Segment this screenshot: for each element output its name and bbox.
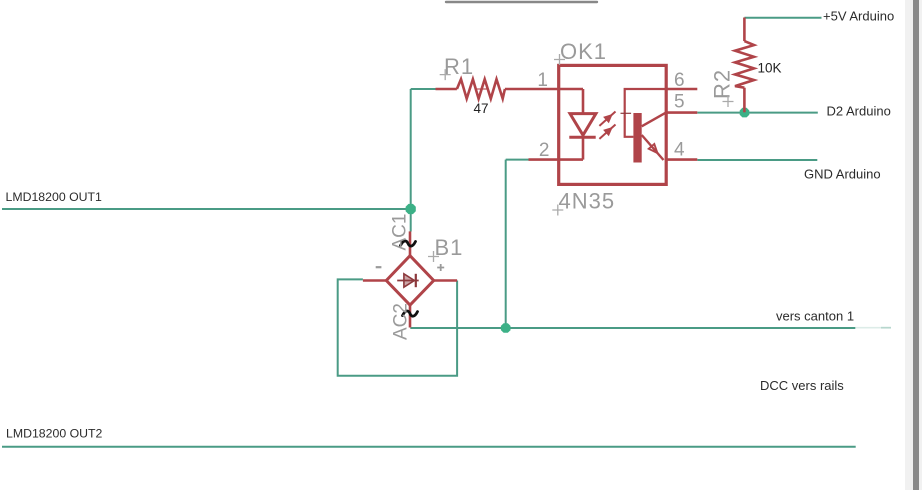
pin 5 stub bbox=[666, 111, 697, 114]
emitter arrowhead bbox=[649, 144, 658, 153]
wire pin2 vertical bbox=[505, 160, 507, 328]
wire LMD18200 OUT1 bbox=[2, 208, 411, 210]
wire loop rectangle bbox=[338, 279, 457, 375]
resistor R1 bbox=[436, 79, 559, 99]
light arrow 1 bbox=[597, 108, 619, 129]
svg-text:AC2: AC2 bbox=[391, 303, 412, 340]
bridge B1 diamond bbox=[386, 256, 433, 305]
junction canton/pin2 bbox=[501, 323, 511, 333]
scrollbar track bbox=[905, 0, 922, 490]
origin cross B1 bbox=[428, 251, 439, 262]
svg-text:6: 6 bbox=[674, 70, 685, 91]
svg-text:DCC vers rails: DCC vers rails bbox=[760, 378, 844, 393]
bridge plus sign bbox=[437, 264, 444, 271]
wire +5V bbox=[744, 17, 821, 19]
AC1 tilde bbox=[401, 241, 416, 246]
bridge inner diode bbox=[397, 274, 419, 287]
bridge top lead AC1 bbox=[409, 231, 412, 256]
svg-text:OK1: OK1 bbox=[560, 39, 607, 64]
svg-text:AC1: AC1 bbox=[390, 214, 411, 251]
junction D2/R2 bbox=[740, 108, 750, 118]
svg-text:vers canton 1: vers canton 1 bbox=[776, 308, 854, 323]
wire pin2 horizontal bbox=[506, 159, 529, 161]
svg-text:1: 1 bbox=[537, 70, 548, 91]
pin 6 stub bbox=[666, 88, 697, 91]
svg-text:4N35: 4N35 bbox=[559, 189, 616, 214]
light arrow 2 bbox=[597, 121, 619, 142]
origin cross R2 bbox=[723, 96, 734, 107]
wire erased remnant bbox=[855, 327, 891, 329]
svg-text:2: 2 bbox=[539, 140, 550, 161]
resistor R2 bbox=[735, 18, 754, 113]
pin 4 stub bbox=[666, 158, 697, 161]
svg-text:47: 47 bbox=[474, 101, 489, 116]
pin 2 stub bbox=[529, 158, 559, 161]
svg-text:4: 4 bbox=[674, 139, 685, 160]
toolbar fragment top bbox=[446, 1, 597, 3]
AC2 tilde bbox=[403, 311, 418, 316]
junction OUT1/vertical bbox=[406, 204, 416, 214]
svg-text:10K: 10K bbox=[758, 61, 782, 76]
LED inside OK1 bbox=[559, 89, 596, 160]
origin cross OK1 bbox=[554, 54, 565, 65]
svg-text:+5V Arduino: +5V Arduino bbox=[823, 9, 894, 24]
scrollbar thumb bbox=[913, 0, 919, 490]
wire GND bbox=[697, 159, 817, 161]
collector bbox=[642, 112, 667, 126]
wire R1 feed bbox=[411, 88, 437, 90]
emitter bbox=[642, 135, 664, 160]
svg-text:LMD18200 OUT2: LMD18200 OUT2 bbox=[6, 427, 103, 441]
svg-text:D2 Arduino: D2 Arduino bbox=[827, 104, 891, 119]
svg-text:5: 5 bbox=[674, 92, 685, 113]
transistor base bar bbox=[633, 113, 641, 163]
bridge right lead plus bbox=[434, 279, 457, 282]
svg-text:LMD18200 OUT1: LMD18200 OUT1 bbox=[6, 190, 103, 204]
origin cross 4N35 bbox=[552, 205, 563, 216]
svg-text:R2: R2 bbox=[710, 69, 735, 99]
wire vers canton 1 bbox=[410, 327, 855, 329]
transistor origin tick bbox=[621, 112, 632, 114]
bridge bottom lead AC2 bbox=[409, 305, 412, 327]
wire vertical OUT1 to R1/bridge bbox=[410, 89, 412, 232]
wire D2 bbox=[697, 112, 818, 114]
origin cross R1 bbox=[440, 69, 451, 80]
wire LMD18200 OUT2 bbox=[2, 446, 856, 448]
op-to OK1 box bbox=[559, 65, 667, 184]
bridge minus sign bbox=[376, 266, 382, 268]
svg-text:GND Arduino: GND Arduino bbox=[804, 166, 881, 181]
phototransistor base path bbox=[625, 89, 667, 137]
bridge left lead minus bbox=[363, 279, 386, 282]
